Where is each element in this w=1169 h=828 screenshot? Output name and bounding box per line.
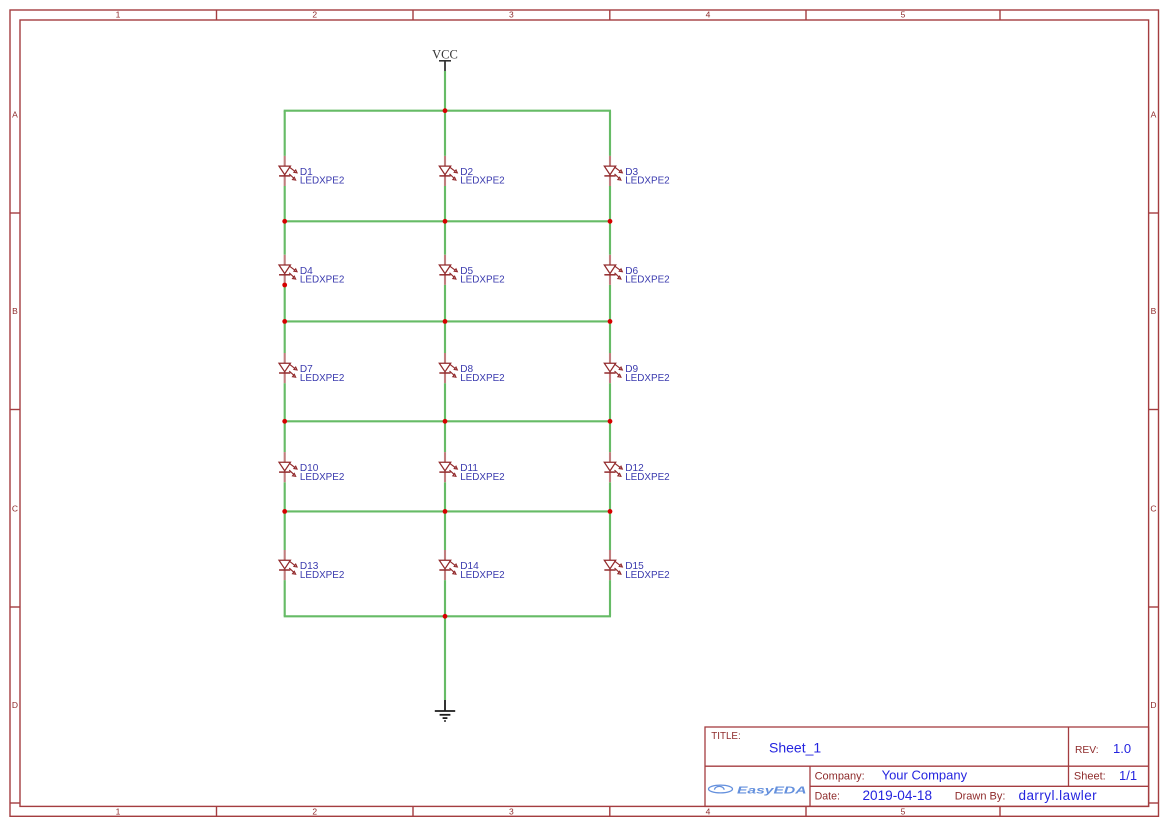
svg-text:Sheet_1: Sheet_1 (769, 740, 821, 756)
svg-text:A: A (1151, 109, 1157, 119)
svg-text:LEDXPE2: LEDXPE2 (300, 176, 344, 187)
svg-text:LEDXPE2: LEDXPE2 (300, 472, 344, 483)
svg-text:LEDXPE2: LEDXPE2 (460, 472, 504, 483)
svg-text:LEDXPE2: LEDXPE2 (625, 176, 669, 187)
svg-text:C: C (12, 503, 18, 513)
svg-text:LEDXPE2: LEDXPE2 (625, 570, 669, 581)
svg-text:2: 2 (312, 10, 317, 20)
svg-text:5: 5 (901, 10, 906, 20)
svg-text:5: 5 (901, 806, 906, 816)
svg-text:2019-04-18: 2019-04-18 (863, 788, 933, 803)
svg-text:1/1: 1/1 (1119, 768, 1137, 783)
svg-text:LEDXPE2: LEDXPE2 (625, 472, 669, 483)
svg-text:Date:: Date: (815, 791, 840, 803)
svg-text:1.0: 1.0 (1113, 741, 1131, 756)
svg-text:LEDXPE2: LEDXPE2 (300, 373, 344, 384)
svg-text:LEDXPE2: LEDXPE2 (460, 275, 504, 286)
svg-text:D: D (1150, 700, 1156, 710)
svg-text:3: 3 (509, 10, 514, 20)
svg-text:EasyEDA: EasyEDA (737, 785, 807, 796)
svg-text:LEDXPE2: LEDXPE2 (300, 275, 344, 286)
svg-text:C: C (1150, 503, 1156, 513)
svg-text:LEDXPE2: LEDXPE2 (625, 275, 669, 286)
svg-text:LEDXPE2: LEDXPE2 (460, 176, 504, 187)
svg-text:B: B (12, 306, 18, 316)
svg-text:VCC: VCC (432, 48, 458, 62)
svg-text:1: 1 (116, 806, 121, 816)
svg-text:1: 1 (116, 10, 121, 20)
svg-text:D: D (12, 700, 18, 710)
svg-text:A: A (12, 109, 18, 119)
svg-text:REV:: REV: (1075, 745, 1099, 756)
svg-text:LEDXPE2: LEDXPE2 (460, 373, 504, 384)
svg-text:Sheet:: Sheet: (1074, 771, 1106, 783)
svg-text:LEDXPE2: LEDXPE2 (460, 570, 504, 581)
svg-text:4: 4 (706, 10, 711, 20)
svg-text:Drawn By:: Drawn By: (955, 791, 1006, 803)
svg-text:TITLE:: TITLE: (711, 731, 740, 742)
svg-text:2: 2 (312, 806, 317, 816)
svg-text:Your Company: Your Company (882, 767, 968, 782)
svg-text:LEDXPE2: LEDXPE2 (300, 570, 344, 581)
svg-text:Company:: Company: (815, 771, 865, 783)
svg-text:B: B (1151, 306, 1157, 316)
svg-text:darryl.lawler: darryl.lawler (1019, 788, 1098, 803)
svg-text:LEDXPE2: LEDXPE2 (625, 373, 669, 384)
svg-text:3: 3 (509, 806, 514, 816)
svg-text:4: 4 (706, 806, 711, 816)
